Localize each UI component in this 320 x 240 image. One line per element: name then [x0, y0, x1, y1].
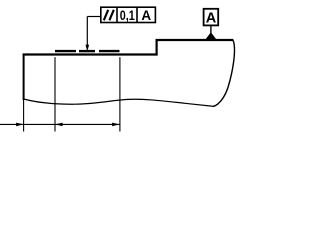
svg-text:A: A	[141, 8, 151, 23]
extension line at end of restricted zone	[119, 57, 121, 131]
leader arrowhead pointing down	[86, 45, 90, 52]
break line: right hooked edge	[213, 41, 234, 107]
break line: bottom wavy	[24, 99, 214, 106]
parallelism symbol	[104, 10, 108, 20]
extension line at start of restricted zone	[54, 57, 56, 131]
datum leader stem	[210, 25, 212, 33]
part outline: left edge	[23, 54, 25, 100]
part outline: lower top surface	[23, 53, 158, 55]
part outline: upper top surface	[156, 39, 234, 41]
leader line vertical	[86, 17, 88, 47]
dimension arrowhead at right extension line	[112, 123, 120, 127]
dimension line	[0, 123, 119, 125]
leader line horizontal from frame	[87, 16, 101, 18]
frame divider 1	[116, 7, 118, 22]
frame divider 2	[136, 7, 138, 22]
extension line left (part edge extended)	[23, 100, 25, 132]
datum feature frame box	[204, 9, 219, 26]
datum triangle	[205, 32, 216, 39]
dimension arrowhead at second extension line	[55, 123, 63, 127]
dimension arrowhead at left extension line	[16, 123, 24, 127]
feature control frame box	[101, 7, 156, 22]
svg-text:A: A	[206, 11, 217, 27]
svg-text:0,1: 0,1	[120, 8, 135, 23]
part outline: step vertical	[156, 39, 158, 55]
restricted tolerance zone thick dashed line	[55, 50, 76, 52]
